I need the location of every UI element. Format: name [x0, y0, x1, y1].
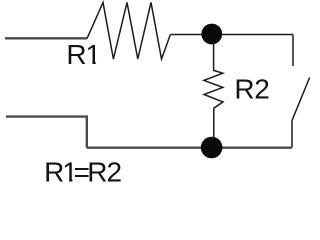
switch S1 blade [292, 78, 310, 148]
wire switch fixed contact vertical [292, 35, 294, 67]
resistor R1 [87, 2, 170, 59]
resistor R2 [204, 34, 223, 140]
svg-text:R2: R2 [234, 73, 269, 104]
wire bottom horizontal [87, 146, 292, 148]
node B (bottom junction) [201, 137, 223, 159]
svg-text:R1=R2: R1=R2 [44, 157, 122, 188]
wire top-left horizontal [5, 37, 87, 39]
wire mid-left horizontal [6, 117, 87, 148]
svg-text:R1: R1 [66, 39, 101, 70]
wire top-right horizontal [170, 34, 293, 36]
node A (top junction) [201, 24, 222, 45]
